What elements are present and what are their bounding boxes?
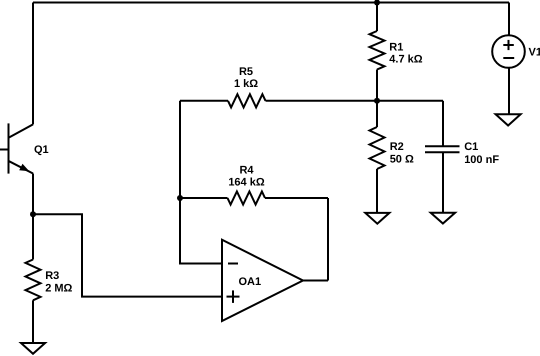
svg-text:2 MΩ: 2 MΩ [45, 283, 72, 295]
wire R4 left lead [180, 197, 228, 199]
svg-text:Q1: Q1 [34, 144, 49, 156]
svg-text:50 Ω: 50 Ω [390, 154, 414, 166]
svg-text:V1: V1 [529, 47, 540, 59]
svg-text:100 nF: 100 nF [464, 154, 499, 166]
ground below V1 [496, 114, 521, 125]
wire R3 top lead [32, 214, 34, 259]
wire R2 bottom lead [376, 169, 378, 212]
wire V1 bottom lead [508, 68, 510, 114]
wire op-amp output [303, 280, 328, 282]
resistor R2 [370, 127, 385, 169]
svg-text:R1: R1 [389, 42, 403, 54]
wire Q1 collector to rail [32, 3, 34, 125]
wire R5 left lead [180, 100, 228, 102]
resistor R1 [370, 31, 385, 70]
wire Q1 emitter down [32, 174, 34, 215]
voltage source V1 [492, 35, 525, 68]
node R4 left junction [177, 195, 183, 201]
wire R2 top lead [376, 101, 378, 127]
svg-text:4.7 kΩ: 4.7 kΩ [389, 53, 422, 65]
ground below R3 [21, 343, 45, 354]
resistor R5 [228, 94, 266, 107]
svg-text:R5: R5 [239, 66, 253, 78]
svg-text:164 kΩ: 164 kΩ [228, 176, 265, 188]
wire inverting input vertical [180, 101, 222, 264]
wire feedback vertical [327, 198, 329, 281]
wire C1 bottom lead [442, 152, 444, 212]
svg-text:R3: R3 [45, 270, 59, 282]
svg-text:R2: R2 [390, 141, 404, 153]
wire R3 bottom lead [32, 300, 34, 342]
svg-text:C1: C1 [464, 141, 478, 153]
transistor Q1 [0, 123, 33, 173]
op-amp OA1 [222, 240, 303, 321]
resistor R3 [26, 260, 41, 301]
svg-text:OA1: OA1 [239, 276, 262, 288]
wire V1 top lead [508, 3, 510, 36]
node emitter junction [30, 211, 36, 217]
wire R5 right to node and C1 [266, 100, 444, 102]
wire C1 top lead [442, 101, 444, 147]
wire R1 bottom lead [376, 70, 378, 101]
resistor R4 [228, 191, 266, 204]
wire emitter node to op-amp plus input [33, 214, 222, 296]
capacitor C1 [425, 146, 460, 152]
node top rail R1 junction [374, 0, 380, 6]
svg-text:1 kΩ: 1 kΩ [234, 78, 258, 90]
svg-text:R4: R4 [239, 165, 254, 177]
wire R4 right lead [265, 197, 328, 199]
node R1 R2 R5 C1 junction [374, 98, 380, 104]
ground below R2 [365, 213, 389, 224]
ground below C1 [431, 213, 455, 224]
wire top rail [33, 2, 509, 4]
wire R1 top lead [376, 3, 378, 32]
